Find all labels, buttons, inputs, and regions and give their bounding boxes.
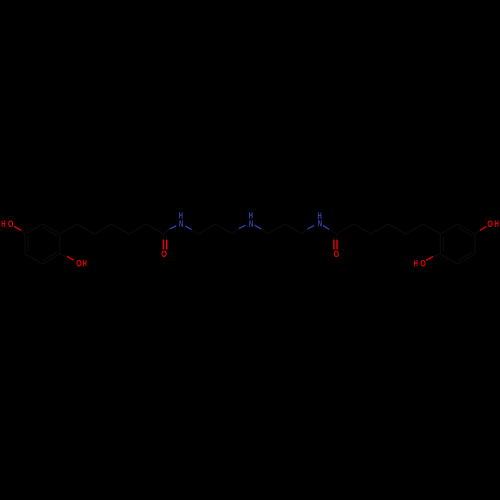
bond N1 to propyl (carbon half) (192, 229, 199, 234)
propyl chain left (198, 224, 233, 234)
bond propyl to N3 (carbon half) (302, 229, 308, 234)
svg-text:H: H (82, 259, 86, 269)
C=O double bond left (164, 240, 167, 250)
bond stub OH right-top (480, 227, 487, 231)
bond stub N2 left (239, 225, 246, 228)
svg-text:H: H (1, 219, 5, 229)
bond stub OH left-bottom (67, 256, 74, 260)
svg-text:O: O (487, 219, 493, 229)
svg-text:O: O (161, 249, 167, 259)
benzene ring left (25, 224, 60, 264)
C=O left carbon halves (164, 234, 167, 240)
bond carbonyl-left to N1 (carbon half) (164, 229, 170, 234)
svg-text:N: N (179, 219, 183, 229)
svg-text:O: O (334, 249, 340, 259)
bond N2 to propyl right (carbon half) (261, 229, 267, 234)
svg-text:N: N (318, 219, 322, 229)
chain left: ring to carbonyl (60, 224, 164, 234)
bond stub HO left (14, 226, 21, 230)
svg-text:O: O (8, 219, 14, 229)
bond N3 to carbonyl-right (carbon half) (329, 229, 336, 234)
bond ring-left to OH (carbon half) (60, 254, 67, 256)
svg-text:N: N (249, 219, 253, 229)
svg-text:H: H (494, 219, 498, 229)
C=O right carbon halves (334, 234, 337, 240)
svg-text:O: O (420, 258, 426, 268)
bond propyl to N2 (carbon half) (233, 228, 239, 234)
benzene ring right (440, 224, 475, 264)
bond stub N3 left (307, 226, 314, 229)
C=O double bond right (334, 240, 337, 250)
bond stub N2 right (255, 225, 262, 229)
bond ring-right to OH (carbon half) (475, 230, 480, 234)
svg-text:O: O (76, 259, 82, 269)
bond stub N1 right (185, 226, 191, 229)
bond ring-right to HO (carbon half) (433, 254, 440, 256)
bond stub HO right-bottom (426, 256, 433, 260)
ring left inner double bonds (28, 228, 57, 261)
bond stub N1 left (170, 226, 177, 229)
svg-text:H: H (413, 258, 417, 268)
ring right inner double bonds (443, 228, 472, 261)
propyl chain right (267, 224, 302, 234)
bond stub N3 right (323, 226, 329, 230)
chain right: carbonyl to ring (337, 224, 441, 234)
bond ring-left to HO (carbon half) (21, 230, 25, 234)
